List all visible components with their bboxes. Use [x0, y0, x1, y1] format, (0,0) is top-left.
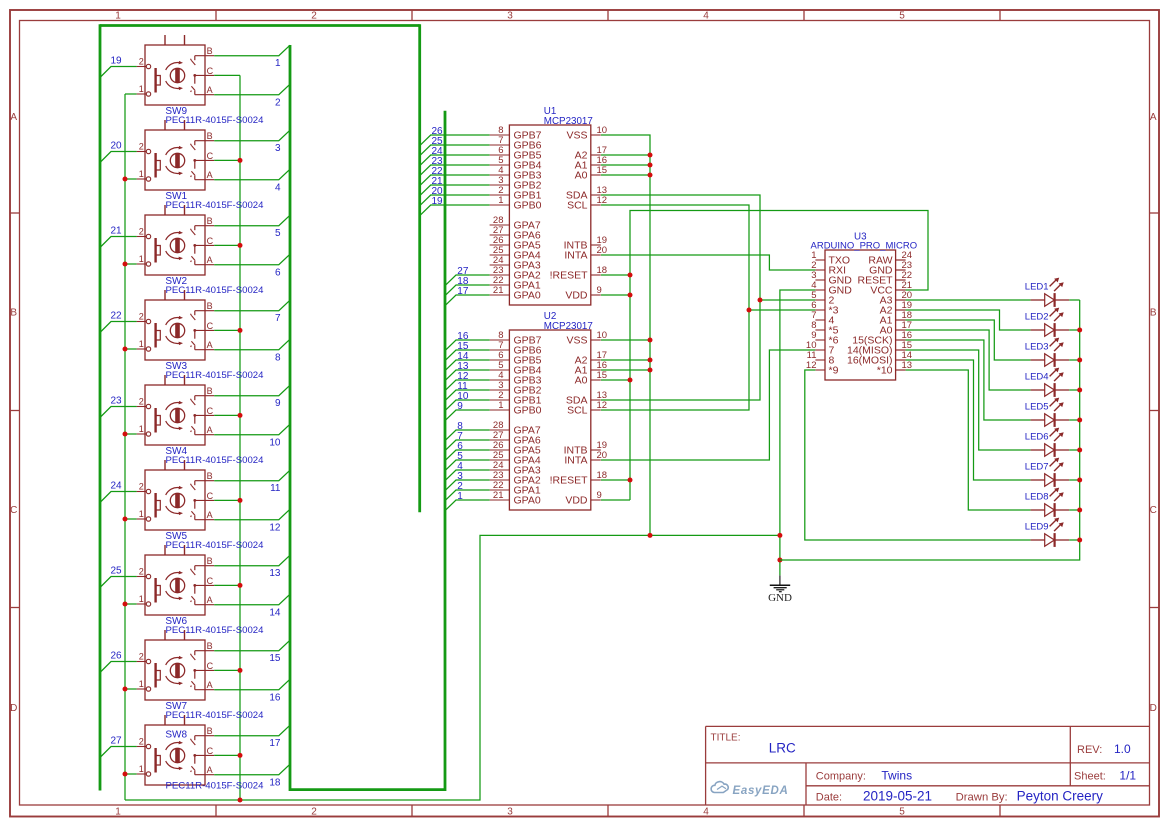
wire U1 GPA2 to bus: [445, 275, 490, 286]
svg-text:A: A: [10, 112, 17, 123]
wire SW6 pin B to right bus: [214, 555, 290, 566]
svg-text:13: 13: [902, 360, 913, 371]
svg-text:20: 20: [597, 450, 608, 461]
svg-text:B: B: [207, 386, 213, 396]
wire U3 pin to LED3 anode: [906, 320, 1031, 360]
svg-text:SW8: SW8: [165, 730, 187, 741]
svg-text:10: 10: [597, 330, 608, 341]
svg-text:GPA0: GPA0: [514, 495, 541, 507]
junction encoder pin1 chain: [123, 432, 128, 437]
svg-text:INTA: INTA: [564, 455, 587, 467]
svg-text:PEC11R-4015F-S0024: PEC11R-4015F-S0024: [166, 285, 265, 296]
svg-text:Peyton Creery: Peyton Creery: [1017, 789, 1104, 804]
svg-text:A: A: [207, 425, 213, 435]
wire U1 GPB4 to bus: [420, 165, 490, 176]
wire U2 INTA to U3 pin 7: [601, 350, 815, 460]
wire SW5 pin 2 to left bus: [100, 492, 137, 503]
wire SW9 pin 1 to common chain: [125, 93, 137, 95]
wire SW4 pin B to right bus: [214, 385, 290, 396]
svg-text:A: A: [1150, 112, 1157, 123]
junction encoder C chain: [238, 668, 243, 673]
svg-text:B: B: [207, 641, 213, 651]
svg-text:16: 16: [269, 693, 281, 704]
svg-text:18: 18: [597, 470, 608, 481]
wire U3 GND pin4 down to ground: [780, 290, 816, 575]
junction: [648, 173, 653, 178]
wire SW1 pin B to right bus: [214, 130, 290, 141]
svg-text:2: 2: [311, 11, 317, 22]
svg-text:1: 1: [139, 84, 144, 94]
wire SW5 pin 1 to common chain: [125, 518, 137, 520]
wire: left vertical bus (encoder pushbutton nets 19-27): [99, 24, 102, 790]
svg-text:C: C: [207, 66, 214, 76]
wire SW1 pin 2 to left bus: [100, 152, 137, 163]
svg-text:VDD: VDD: [565, 495, 588, 507]
svg-text:C: C: [1150, 505, 1157, 516]
svg-text:B: B: [207, 46, 213, 56]
wire SW8 pin A to right bus: [214, 764, 290, 775]
wire SW5 pin A to right bus: [214, 509, 290, 520]
junction GND vertical meets bottom common: [648, 533, 653, 538]
svg-text:B: B: [207, 556, 213, 566]
rotary encoder SW6 PEC11R-4015F-S0024: [137, 545, 215, 615]
junction LED cathode: [1077, 538, 1082, 543]
svg-text:GPB0: GPB0: [514, 405, 542, 417]
junction encoder pin1 chain: [123, 602, 128, 607]
svg-text:19: 19: [432, 196, 444, 207]
svg-text:15: 15: [269, 653, 281, 664]
svg-text:C: C: [207, 151, 214, 161]
svg-text:*9: *9: [829, 365, 839, 377]
svg-text:A: A: [207, 170, 213, 180]
svg-text:15: 15: [597, 165, 608, 176]
svg-text:Date:: Date:: [816, 792, 842, 804]
svg-text:B: B: [10, 308, 17, 319]
svg-text:B: B: [1150, 308, 1157, 319]
wire SW4 pin C to common chain: [214, 414, 240, 416]
svg-text:5: 5: [899, 11, 905, 22]
svg-text:4: 4: [275, 183, 281, 194]
svg-text:VDD: VDD: [565, 290, 588, 302]
svg-text:GPA0: GPA0: [514, 290, 541, 302]
wire SW6 pin A to right bus: [214, 594, 290, 605]
svg-text:A: A: [207, 510, 213, 520]
svg-text:1: 1: [139, 254, 144, 264]
svg-text:3: 3: [507, 11, 513, 22]
junction SCL: [747, 308, 752, 313]
junction: [628, 478, 633, 483]
wire U3 pin to LED7 anode: [906, 360, 1031, 480]
wire U1 GPB1 to bus: [420, 195, 490, 206]
wire SW3 pin C to common chain: [214, 329, 240, 331]
svg-text:12: 12: [597, 195, 608, 206]
svg-text:2: 2: [139, 737, 144, 747]
svg-text:LED4: LED4: [1025, 372, 1049, 383]
junction: [648, 338, 653, 343]
svg-text:Twins: Twins: [881, 769, 912, 783]
wire U3 pin to LED5 anode: [906, 340, 1031, 420]
svg-text:D: D: [10, 703, 17, 714]
svg-text:1: 1: [139, 509, 144, 519]
svg-text:!RESET: !RESET: [550, 475, 589, 487]
wire SW7 pin A to right bus: [214, 679, 290, 690]
svg-text:6: 6: [275, 268, 281, 279]
wire SW2 pin 2 to left bus: [100, 237, 137, 248]
svg-text:LED2: LED2: [1025, 312, 1049, 323]
wire U2 GPA6 to bus: [445, 440, 490, 451]
wire SW8 pin 2 to left bus: [100, 747, 137, 758]
svg-text:B: B: [207, 726, 213, 736]
svg-text:!RESET: !RESET: [550, 270, 589, 282]
svg-text:1: 1: [139, 424, 144, 434]
svg-text:MCP23017: MCP23017: [544, 116, 593, 127]
rotary encoder SW1 PEC11R-4015F-S0024: [137, 120, 215, 190]
svg-text:SCL: SCL: [567, 200, 588, 212]
svg-text:ARDUINO_PRO_MICRO: ARDUINO_PRO_MICRO: [811, 241, 918, 252]
wire U3 pin 2 to SDA: [760, 299, 815, 301]
svg-text:A: A: [207, 340, 213, 350]
svg-text:LRC: LRC: [769, 741, 796, 756]
svg-text:1: 1: [139, 679, 144, 689]
svg-text:B: B: [207, 216, 213, 226]
junction LED cathode: [1077, 328, 1082, 333]
svg-text:C: C: [207, 661, 214, 671]
rotary encoder SW2 PEC11R-4015F-S0024: [137, 205, 215, 275]
svg-text:1: 1: [498, 195, 503, 206]
wire SW3 pin A to right bus: [214, 339, 290, 350]
junction encoder pin1 chain: [123, 347, 128, 352]
wire: bottom common to GND net: [125, 535, 780, 800]
junction encoder pin1 chain: [123, 177, 128, 182]
svg-text:PEC11R-4015F-S0024: PEC11R-4015F-S0024: [166, 625, 265, 636]
svg-text:A0: A0: [575, 170, 588, 182]
svg-text:MCP23017: MCP23017: [544, 321, 593, 332]
wire LED3 cathode to return bus: [1069, 359, 1080, 361]
svg-text:EasyEDA: EasyEDA: [733, 785, 789, 797]
junction: [648, 368, 653, 373]
junction encoder C chain: [238, 328, 243, 333]
svg-text:9: 9: [275, 398, 281, 409]
junction encoder pin1 chain: [123, 517, 128, 522]
ground GND: [768, 575, 792, 603]
svg-text:24: 24: [111, 481, 123, 492]
svg-text:2: 2: [275, 98, 281, 109]
wire U1 GPB0 to bus: [420, 205, 490, 216]
svg-text:A: A: [207, 680, 213, 690]
svg-text:1.0: 1.0: [1114, 742, 1131, 756]
svg-text:2: 2: [139, 652, 144, 662]
junction LED cathode: [1077, 418, 1082, 423]
junction LED cathode: [1077, 508, 1082, 513]
junction encoder C chain: [238, 498, 243, 503]
wire U2 GPB1 to bus: [445, 400, 490, 411]
junction: [648, 163, 653, 168]
junction: [628, 378, 633, 383]
wire SW6 pin 1 to common chain: [125, 603, 137, 605]
wire SW4 pin A to right bus: [214, 424, 290, 435]
wire U3 pin to LED6 anode: [906, 350, 1031, 450]
wire U3 pin to LED8 anode: [906, 370, 1031, 510]
svg-text:C: C: [207, 746, 214, 756]
LED LED5: [1031, 398, 1070, 427]
svg-text:PEC11R-4015F-S0024: PEC11R-4015F-S0024: [166, 200, 265, 211]
junction: [628, 293, 633, 298]
wire SW2 pin B to right bus: [214, 215, 290, 226]
svg-text:C: C: [207, 321, 214, 331]
svg-text:B: B: [207, 131, 213, 141]
wire SW2 pin 1 to common chain: [125, 263, 137, 265]
wire VCC net vertical + horizontal to U3 VCC: [630, 211, 928, 501]
svg-text:18: 18: [597, 265, 608, 276]
wire U2 GPA3 to bus: [445, 470, 490, 481]
wire U3 pin to LED4 anode: [906, 330, 1031, 390]
svg-text:1: 1: [139, 169, 144, 179]
svg-text:C: C: [207, 576, 214, 586]
svg-text:20: 20: [111, 141, 123, 152]
junction LED cathode: [1077, 388, 1082, 393]
wire U2 GPB3 to bus: [445, 380, 490, 391]
junction LED cathode: [1077, 478, 1082, 483]
svg-text:18: 18: [269, 778, 281, 789]
svg-text:B: B: [207, 301, 213, 311]
junction: [648, 153, 653, 158]
wire U2 pin to GND: [601, 359, 650, 361]
svg-text:LED8: LED8: [1025, 492, 1049, 503]
svg-text:TITLE:: TITLE:: [711, 733, 741, 744]
wire SW8 pin C to common chain: [214, 754, 240, 756]
rotary encoder SW8 PEC11R-4015F-S0024: [137, 715, 215, 785]
svg-text:Sheet:: Sheet:: [1074, 771, 1106, 783]
svg-text:D: D: [1150, 703, 1157, 714]
wire U2 pin to GND: [601, 369, 650, 371]
svg-text:22: 22: [111, 311, 123, 322]
svg-text:1: 1: [139, 764, 144, 774]
svg-text:A: A: [207, 765, 213, 775]
svg-text:2: 2: [139, 57, 144, 67]
svg-text:13: 13: [269, 568, 281, 579]
svg-text:A: A: [207, 85, 213, 95]
svg-text:10: 10: [597, 125, 608, 136]
wire U1 GPA0 to bus: [445, 295, 490, 306]
wire U2 A0 to VCC: [601, 379, 630, 381]
svg-text:SCL: SCL: [567, 405, 588, 417]
wire U1 GPB5 to bus: [420, 155, 490, 166]
junction encoder C chain: [238, 243, 243, 248]
wire SCL net: U1 SCL - U3 pin3 - U2 SCL: [601, 205, 749, 410]
wire SW5 pin B to right bus: [214, 470, 290, 481]
wire SW7 pin C to common chain: [214, 669, 240, 671]
svg-text:1: 1: [115, 11, 121, 22]
wire U1 GPA1 to bus: [445, 285, 490, 296]
wire SW3 pin B to right bus: [214, 300, 290, 311]
wire: top bus connecting left button bus to U1 GPB bus: [100, 24, 420, 27]
wire LED8 cathode to return bus: [1069, 509, 1080, 511]
LED LED4: [1031, 368, 1070, 397]
wire SW9 pin C to common chain: [214, 74, 240, 76]
wire U2 GPA1 to bus: [445, 490, 490, 501]
svg-text:GND: GND: [768, 592, 792, 604]
svg-text:1: 1: [139, 594, 144, 604]
wire U1 address pin to GND: [601, 174, 650, 176]
svg-text:4: 4: [703, 807, 709, 818]
wire: vertical bus feeding U1 GPB pins: [418, 24, 421, 512]
svg-text:14: 14: [269, 608, 281, 619]
junction encoder C chain: [238, 753, 243, 758]
svg-text:12: 12: [597, 400, 608, 411]
wire SW4 pin 2 to left bus: [100, 407, 137, 418]
svg-text:B: B: [207, 471, 213, 481]
wire U2 !RESET to VCC: [601, 479, 630, 481]
wire U3 pin to LED2 anode: [906, 310, 1031, 330]
svg-text:PEC11R-4015F-S0024: PEC11R-4015F-S0024: [166, 115, 265, 126]
svg-text:VSS: VSS: [566, 335, 587, 347]
wire U1 GPB6 to bus: [420, 145, 490, 156]
wire SW1 pin C to common chain: [214, 159, 240, 161]
junction LED cathode: [1077, 448, 1082, 453]
wire LED4 cathode to return bus: [1069, 389, 1080, 391]
wire SW8 pin 1 to common chain: [125, 773, 137, 775]
svg-text:21: 21: [111, 226, 123, 237]
wire SW6 pin 2 to left bus: [100, 577, 137, 588]
wire SW9 pin A to right bus: [214, 84, 290, 95]
svg-text:2: 2: [139, 397, 144, 407]
junction encoder pin1 chain: [123, 687, 128, 692]
svg-text:21: 21: [493, 490, 504, 501]
svg-text:LED6: LED6: [1025, 432, 1049, 443]
junction encoder C chain: [238, 413, 243, 418]
svg-text:PEC11R-4015F-S0024: PEC11R-4015F-S0024: [166, 710, 265, 721]
LED LED3: [1031, 338, 1070, 367]
wire U1 GPB7 to bus: [420, 135, 490, 146]
svg-text:15: 15: [597, 370, 608, 381]
wire LED5 cathode to return bus: [1069, 419, 1080, 421]
svg-text:C: C: [207, 491, 214, 501]
junction: [628, 273, 633, 278]
wire SW2 pin A to right bus: [214, 254, 290, 265]
svg-text:27: 27: [111, 736, 123, 747]
svg-text:8: 8: [275, 353, 281, 364]
rotary encoder SW9 PEC11R-4015F-S0024: [137, 35, 215, 105]
wire U1 !RESET to VCC: [601, 274, 630, 276]
wire U3 pin to LED1 anode: [906, 299, 1031, 301]
wire U2 GPB5 to bus: [445, 360, 490, 371]
wire U1 address pin to GND: [601, 154, 650, 156]
svg-text:INTA: INTA: [564, 250, 587, 262]
svg-text:LED3: LED3: [1025, 342, 1049, 353]
svg-text:4: 4: [703, 11, 709, 22]
wire U2 GPB6 to bus: [445, 350, 490, 361]
wire SW3 pin 1 to common chain: [125, 348, 137, 350]
wire U3 pin *3 to SCL: [749, 309, 815, 311]
wire SW1 pin 1 to common chain: [125, 178, 137, 180]
svg-text:LED5: LED5: [1025, 402, 1049, 413]
wire U2 GPA7 to bus: [445, 430, 490, 441]
IC U3 ARDUINO PRO MICRO: [806, 250, 912, 380]
svg-text:9: 9: [597, 490, 602, 501]
wire LED cathode return to ground: [780, 300, 1080, 560]
svg-text:1/1: 1/1: [1119, 769, 1136, 783]
svg-text:20: 20: [597, 245, 608, 256]
svg-text:5: 5: [275, 228, 281, 239]
svg-text:REV:: REV:: [1077, 744, 1102, 756]
svg-text:2: 2: [139, 312, 144, 322]
svg-text:2: 2: [139, 227, 144, 237]
svg-text:5: 5: [899, 807, 905, 818]
junction ground / bottom common: [777, 533, 782, 538]
svg-text:2: 2: [139, 482, 144, 492]
IC U1 MCP23017: [490, 125, 607, 305]
rotary encoder SW5 PEC11R-4015F-S0024: [137, 460, 215, 530]
svg-text:3: 3: [507, 807, 513, 818]
svg-text:2: 2: [139, 142, 144, 152]
wire U3 pin to LED9 anode: [805, 370, 1031, 540]
IC U2 MCP23017: [490, 330, 607, 510]
svg-text:PEC11R-4015F-S0024: PEC11R-4015F-S0024: [166, 540, 265, 551]
svg-text:1: 1: [115, 807, 121, 818]
svg-text:1: 1: [275, 58, 281, 69]
wire U2 GPA4 to bus: [445, 460, 490, 471]
svg-text:*10: *10: [877, 365, 893, 377]
rotary encoder SW3 PEC11R-4015F-S0024: [137, 290, 215, 360]
wire U2 GPA5 to bus: [445, 450, 490, 461]
wire LED6 cathode to return bus: [1069, 449, 1080, 451]
LED LED7: [1031, 458, 1070, 487]
svg-text:C: C: [10, 505, 17, 516]
wire U2 VDD to VCC: [601, 499, 630, 501]
junction LED cathode: [1077, 358, 1082, 363]
junction ground / LED cathode return: [777, 558, 782, 563]
svg-text:C: C: [207, 406, 214, 416]
LED LED6: [1031, 428, 1070, 457]
svg-text:19: 19: [111, 56, 123, 67]
wire SW6 pin C to common chain: [214, 584, 240, 586]
svg-text:2019-05-21: 2019-05-21: [863, 789, 932, 804]
junction encoder pin1 chain: [123, 262, 128, 267]
wire SW9 pin 2 to left bus: [100, 67, 137, 78]
wire: encoder pin-1 common chain: [124, 94, 126, 800]
junction SDA: [758, 298, 763, 303]
svg-text:2: 2: [139, 567, 144, 577]
wire U2 GPB4 to bus: [445, 370, 490, 381]
wire U2 GPB2 to bus: [445, 390, 490, 401]
svg-text:25: 25: [111, 566, 123, 577]
LED LED1: [1031, 278, 1070, 307]
svg-text:PEC11R-4015F-S0024: PEC11R-4015F-S0024: [166, 370, 265, 381]
wire SW1 pin A to right bus: [214, 169, 290, 180]
svg-text:11: 11: [270, 483, 281, 494]
svg-text:Drawn By:: Drawn By:: [956, 792, 1008, 804]
rotary encoder SW7 PEC11R-4015F-S0024: [137, 630, 215, 700]
LED LED9: [1031, 518, 1070, 547]
svg-text:PEC11R-4015F-S0024: PEC11R-4015F-S0024: [166, 781, 265, 792]
wire SW8 pin B to right bus: [214, 725, 290, 736]
svg-text:LED9: LED9: [1025, 522, 1049, 533]
LED LED2: [1031, 308, 1070, 337]
svg-text:Company:: Company:: [816, 771, 866, 783]
wire U1 INTA to U3 RXI: [601, 255, 815, 270]
svg-text:12: 12: [269, 523, 281, 534]
svg-text:3: 3: [275, 143, 281, 154]
svg-text:17: 17: [269, 738, 281, 749]
wire U1 VDD to VCC: [601, 294, 630, 296]
LED LED8: [1031, 488, 1070, 517]
wire U1 GPB2 to bus: [420, 185, 490, 196]
svg-text:17: 17: [457, 286, 469, 297]
wire LED9 cathode to return bus: [1069, 539, 1080, 541]
wire: right encoder bus (nets 1-18) down, across bottom, up to U1/U2 GPA bus: [290, 45, 445, 790]
svg-text:10: 10: [269, 438, 281, 449]
wire SW4 pin 1 to common chain: [125, 433, 137, 435]
